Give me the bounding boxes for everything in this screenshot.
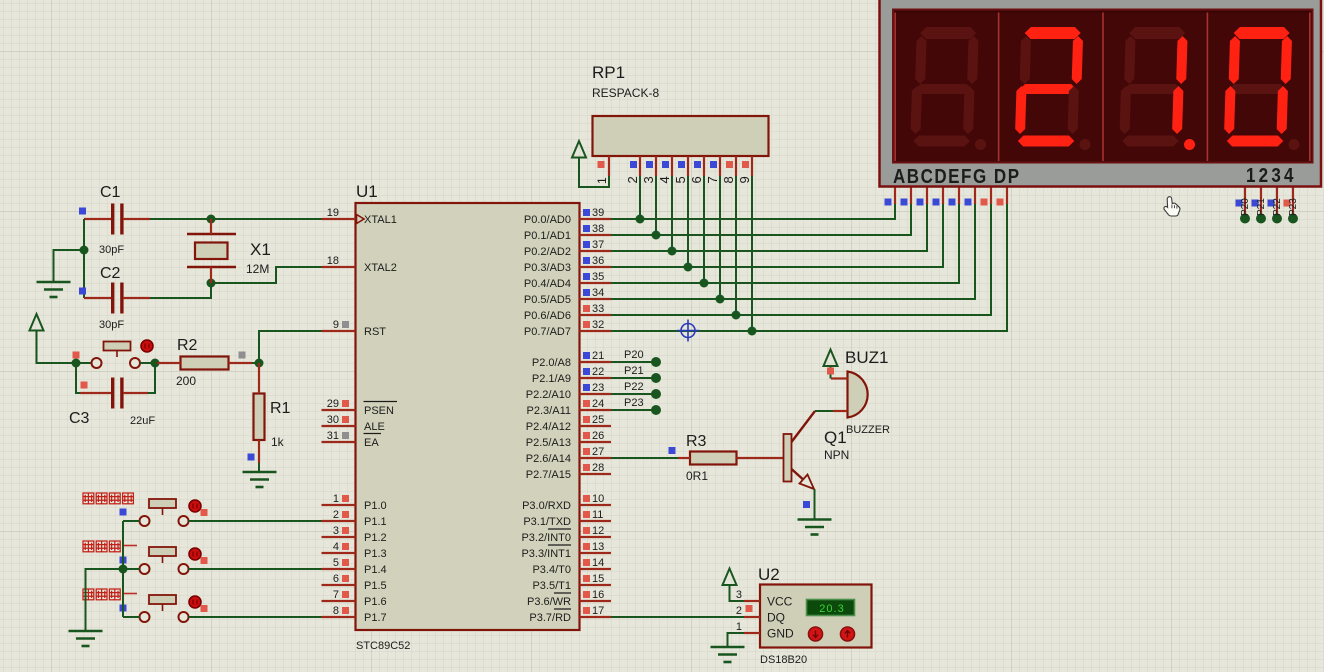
wire P0.0 net to display: [611, 203, 895, 219]
svg-text:18: 18: [327, 255, 339, 267]
wire C2 to crystal bottom: [150, 283, 211, 298]
push switch 3 click button: [189, 596, 201, 608]
svg-text:15: 15: [592, 573, 604, 585]
pin 38 P0.1/AD1 (U1 right): [580, 234, 612, 236]
state square R1 bottom: [248, 454, 255, 461]
pin 4 RP1: [671, 156, 673, 176]
svg-text:P2.2/A10: P2.2/A10: [526, 389, 571, 401]
svg-text:RESPACK-8: RESPACK-8: [592, 86, 659, 100]
svg-text:P1.6: P1.6: [364, 596, 387, 608]
wire P0.7 net to display: [611, 203, 1007, 331]
wire R2 to RST node: [252, 362, 259, 364]
overline WR: [554, 592, 571, 594]
svg-text:R3: R3: [686, 433, 707, 450]
svg-text:DS18B20: DS18B20: [760, 654, 807, 666]
display pin B: [910, 188, 912, 205]
svg-text:9: 9: [333, 319, 339, 331]
power arrow VCC (reset): [30, 314, 44, 331]
svg-text:6: 6: [689, 176, 704, 183]
wire BUZ1 top to VCC: [830, 366, 832, 379]
svg-text:X1: X1: [250, 240, 271, 259]
push switch 3 right contact: [179, 612, 189, 622]
node P0.0/RP1 junction: [636, 215, 645, 224]
svg-text:38: 38: [592, 223, 604, 235]
wire P0.3 net to display: [611, 203, 943, 267]
svg-text:P2.1/A9: P2.1/A9: [532, 373, 571, 385]
resistor R1 leads: [258, 363, 260, 394]
capacitor C3 plates: [111, 378, 114, 409]
svg-text:24: 24: [592, 398, 604, 410]
overline PSEN: [364, 401, 398, 403]
svg-text:31: 31: [327, 430, 339, 442]
node P22 terminal: [651, 389, 661, 399]
pin 23 P2.2/A10 (U1 right): [580, 393, 612, 395]
overline EA: [364, 433, 382, 435]
svg-text:25: 25: [592, 414, 604, 426]
pin 39 P0.0/AD0 (U1 right): [580, 218, 612, 220]
svg-text:P3.0/RXD: P3.0/RXD: [522, 500, 571, 512]
pin 31 EA (U1 left): [322, 441, 356, 443]
svg-text:32: 32: [592, 319, 604, 331]
state square button3 right: [201, 605, 208, 612]
svg-text:5: 5: [333, 557, 339, 569]
pin 22 P2.1/A9 (U1 right): [580, 377, 612, 379]
pin 4 P1.3 (U1 left): [322, 552, 356, 554]
wire C1-left down to ground branch: [83, 219, 85, 250]
svg-text:BUZ1: BUZ1: [845, 348, 888, 367]
digit 3 decimal point: [1184, 139, 1195, 150]
svg-text:P3.4/T0: P3.4/T0: [532, 564, 571, 576]
svg-text:R1: R1: [270, 400, 291, 417]
wire P0.6 net to display: [611, 203, 991, 315]
pin 10 P3.0/RXD (U1 right): [580, 504, 612, 506]
node C3-right junction: [151, 359, 160, 368]
svg-text:8: 8: [721, 176, 736, 183]
svg-text:30: 30: [327, 414, 339, 426]
svg-text:2: 2: [333, 509, 339, 521]
capacitor C1 leads: [84, 218, 111, 220]
svg-text:P2.5/A13: P2.5/A13: [526, 437, 571, 449]
wire C3 branch down-left: [76, 363, 80, 393]
label 阈值加 (red): [83, 541, 94, 552]
svg-text:11: 11: [592, 509, 603, 521]
wire collector to buzzer: [815, 410, 833, 412]
pin 37 P0.2/AD2 (U1 right): [580, 250, 612, 252]
svg-text:RST: RST: [364, 326, 386, 338]
svg-text:Q1: Q1: [824, 428, 847, 447]
svg-text:20.3: 20.3: [819, 603, 844, 615]
svg-text:P2.7/A15: P2.7/A15: [526, 469, 571, 481]
svg-text:PSEN: PSEN: [364, 405, 394, 417]
node P0.6/RP1 junction: [732, 311, 741, 320]
wire P3.7 to DQ: [611, 616, 744, 618]
pin 33 P0.6/AD6 (U1 right): [580, 314, 612, 316]
node P0.1/RP1 junction: [652, 231, 661, 240]
svg-text:37: 37: [592, 239, 604, 251]
wire P0.1 net to display: [611, 203, 911, 235]
wire RP1 pin5 down to P0.3: [687, 176, 689, 267]
display digit pin 1 / net P20: [1244, 188, 1246, 217]
svg-text:EA: EA: [364, 437, 379, 449]
node P23 terminal: [651, 405, 661, 415]
digit cell 1 background: [895, 13, 998, 161]
ground (U2): [711, 646, 745, 649]
wire RP1 pin7 down to P0.5: [719, 176, 721, 299]
svg-text:P2.0/A8: P2.0/A8: [532, 357, 571, 369]
svg-text:1: 1: [595, 177, 609, 184]
ground (buttons): [69, 630, 103, 633]
power arrow VCC (U2): [723, 569, 737, 586]
svg-text:33: 33: [592, 303, 604, 315]
wire branch down to C2: [83, 250, 85, 298]
label dash: [124, 593, 137, 595]
svg-text:P0.2/AD2: P0.2/AD2: [524, 246, 571, 258]
pin 25 P2.4/A12 (U1 right): [580, 425, 612, 427]
pin 36 P0.3/AD3 (U1 right): [580, 266, 612, 268]
ground (oscillator): [37, 281, 71, 284]
svg-text:1k: 1k: [271, 435, 285, 449]
crystal X1 top plate: [187, 233, 236, 236]
pin 1 P1.0 (U1 left): [322, 504, 356, 506]
wire button2 left to common: [123, 568, 140, 570]
svg-text:P3.6/WR: P3.6/WR: [527, 596, 571, 608]
overline INT0: [548, 528, 571, 530]
crystal X1 leads: [210, 219, 212, 234]
buzzer BUZ1 leads: [831, 377, 848, 379]
pin 14 P3.4/T0 (U1 right): [580, 568, 612, 570]
state square Q1 emitter: [803, 501, 810, 508]
push switch 1 click button: [189, 500, 201, 512]
pin 35 P0.4/AD4 (U1 right): [580, 282, 612, 284]
wire common to ground: [86, 569, 124, 631]
svg-text:7: 7: [333, 589, 339, 601]
crystal X1 body: [195, 243, 228, 260]
push switch 3 actuator: [149, 595, 176, 604]
push switch 1 actuator: [149, 499, 176, 508]
node RST/R1: [255, 359, 264, 368]
svg-text:U1: U1: [356, 182, 378, 201]
svg-text:3: 3: [736, 589, 742, 601]
push switch (reset) right contact: [130, 358, 140, 368]
resistor R3 body: [690, 452, 737, 465]
push switch 2 left contact: [140, 564, 150, 574]
wire P0.4 net to display: [611, 203, 959, 283]
label dash: [124, 545, 137, 547]
svg-text:GND: GND: [767, 627, 794, 641]
svg-text:NPN: NPN: [824, 448, 849, 462]
wire P0.2 net to display: [611, 203, 927, 251]
state square button1 right: [201, 509, 208, 516]
svg-text:P3.5/T1: P3.5/T1: [532, 580, 571, 592]
wire emitter to ground: [814, 489, 816, 520]
display digit pin 3 / net P22: [1276, 188, 1278, 217]
pin 2 P1.1 (U1 left): [322, 520, 356, 522]
wire VCC arrow to pin3: [730, 585, 745, 601]
wire RP1 pin4 down to P0.2: [671, 176, 673, 251]
push switch (reset) click button: [141, 340, 153, 352]
svg-text:22: 22: [592, 366, 604, 378]
svg-text:36: 36: [592, 255, 604, 267]
pin 3 RP1: [655, 156, 657, 176]
node P0.4/RP1 junction: [700, 279, 709, 288]
pin 7 RP1: [719, 156, 721, 176]
node crystal bottom: [207, 279, 216, 288]
svg-text:P0.5/AD5: P0.5/AD5: [524, 294, 571, 306]
digit 1 segments: [910, 27, 979, 147]
svg-text:BUZZER: BUZZER: [846, 424, 890, 436]
U2 plus button: [841, 627, 855, 641]
state square button2 left: [120, 557, 127, 564]
svg-text:0R1: 0R1: [686, 469, 708, 483]
pin 12 P3.2/INT0 (U1 right): [580, 536, 612, 538]
svg-text:39: 39: [592, 207, 604, 219]
svg-text:4: 4: [333, 541, 339, 553]
svg-text:P0.3/AD3: P0.3/AD3: [524, 262, 571, 274]
svg-text:P20: P20: [624, 349, 644, 361]
svg-text:P23: P23: [624, 397, 644, 409]
svg-text:P1.5: P1.5: [364, 580, 387, 592]
buzzer BUZ1 body: [848, 372, 868, 418]
svg-text:30pF: 30pF: [99, 319, 124, 331]
svg-text:C2: C2: [100, 265, 121, 282]
wire P0.5 net to display: [611, 203, 975, 299]
power arrow VCC (BUZ1): [824, 350, 838, 367]
svg-text:9: 9: [737, 176, 752, 183]
display pin G: [990, 188, 992, 205]
wire C1 to XTAL1 net: [150, 218, 322, 220]
svg-text:3: 3: [641, 176, 656, 183]
svg-text:29: 29: [327, 398, 339, 410]
svg-text:26: 26: [592, 430, 604, 442]
wire R1 to ground: [258, 463, 260, 472]
display digit pin 2 / net P21: [1260, 188, 1262, 217]
wire RP1 pin3 down to P0.1: [655, 176, 657, 235]
svg-text:P22: P22: [1272, 198, 1283, 216]
IC U1 STC89C52 body: [356, 203, 580, 630]
svg-text:P22: P22: [624, 381, 644, 393]
svg-text:XTAL2: XTAL2: [364, 262, 397, 274]
push switch 3 left contact: [140, 612, 150, 622]
svg-text:P1.2: P1.2: [364, 532, 387, 544]
svg-text:R2: R2: [177, 337, 198, 354]
digit 2 segments: [1015, 27, 1084, 147]
svg-text:19: 19: [327, 207, 339, 219]
svg-text:12M: 12M: [246, 262, 269, 276]
svg-text:P1.3: P1.3: [364, 548, 387, 560]
display pin C: [926, 188, 928, 205]
node P21 terminal: [651, 373, 661, 383]
svg-text:4: 4: [657, 176, 672, 183]
display pin DP: [1006, 188, 1008, 205]
display pin D: [942, 188, 944, 205]
node gnd branch: [80, 246, 89, 255]
resistor R2 body: [181, 357, 229, 370]
digit 1 decimal point: [975, 139, 986, 150]
capacitor C2 leads: [84, 297, 111, 299]
push switch 2 click button: [189, 548, 201, 560]
svg-text:17: 17: [592, 605, 604, 617]
state square C1 left: [79, 208, 86, 215]
digit 4 segments: [1224, 27, 1293, 147]
node P0.5/RP1 junction: [716, 295, 725, 304]
pin 30 ALE (U1 left): [322, 425, 356, 427]
node XTAL1/crystal-top junction: [207, 215, 216, 224]
svg-text:RP1: RP1: [592, 63, 625, 82]
state square switch left: [73, 352, 80, 359]
pin 18 XTAL2 (U1 left): [322, 266, 356, 268]
svg-text:P21: P21: [1256, 198, 1267, 216]
svg-text:16: 16: [592, 589, 604, 601]
ground (R1): [243, 471, 277, 474]
capacitor C3 leads: [80, 392, 111, 394]
svg-text:10: 10: [592, 493, 604, 505]
push switch 1 left contact: [140, 516, 150, 526]
transistor Q1 collector: [792, 411, 816, 442]
pin 15 P3.5/T1 (U1 right): [580, 584, 612, 586]
overline RD: [554, 608, 571, 610]
label 阈值减 (red): [83, 589, 94, 600]
svg-text:DQ: DQ: [767, 611, 785, 625]
pin 7 P1.6 (U1 left): [322, 600, 356, 602]
svg-text:P1.7: P1.7: [364, 612, 387, 624]
state square BUZ1: [827, 368, 834, 375]
wire button2 to P1 pin: [189, 568, 322, 570]
svg-text:VCC: VCC: [767, 595, 793, 609]
pin 19 XTAL1 (U1 left): [322, 218, 356, 220]
display pin F: [974, 188, 976, 205]
wire P2.0 stub: [611, 361, 656, 363]
svg-text:P3.3/INT1: P3.3/INT1: [521, 548, 571, 560]
svg-text:28: 28: [592, 462, 604, 474]
state square C2 left: [79, 288, 86, 295]
svg-text:8: 8: [333, 605, 339, 617]
svg-text:P2.6/A14: P2.6/A14: [526, 453, 571, 465]
push switch 1 right contact: [179, 516, 189, 526]
svg-text:P3.1/TXD: P3.1/TXD: [523, 516, 571, 528]
pin 32 P0.7/AD7 (U1 right): [580, 330, 612, 332]
U2 minus button: [809, 627, 823, 641]
pin 3 VCC U2: [744, 600, 760, 602]
pin 5 P1.4 (U1 left): [322, 568, 356, 570]
pin 16 P3.6/WR (U1 right): [580, 600, 612, 602]
svg-text:3: 3: [333, 525, 339, 537]
sensor U2 body: [760, 585, 872, 648]
wire button3 to P1 pin: [189, 616, 322, 618]
svg-text:P23: P23: [1288, 198, 1299, 216]
label 界面切换 (red): [83, 493, 94, 504]
resistor R1 body: [254, 394, 265, 441]
wire button1 to P1 pin: [189, 520, 322, 522]
svg-text:XTAL1: XTAL1: [364, 214, 397, 226]
display pin E: [958, 188, 960, 205]
pin 1 GND U2: [744, 632, 760, 634]
pin 2 DQ U2: [744, 616, 760, 618]
pin 34 P0.5/AD5 (U1 right): [580, 298, 612, 300]
svg-text:P3.7/RD: P3.7/RD: [529, 612, 571, 624]
push switch (reset) left contact: [92, 358, 102, 368]
svg-text:U2: U2: [758, 565, 780, 584]
svg-text:12: 12: [592, 525, 604, 537]
svg-text:1: 1: [736, 621, 742, 633]
svg-text:22uF: 22uF: [130, 415, 155, 427]
digit cell 3 background: [1104, 13, 1207, 161]
pin 5 RP1: [687, 156, 689, 176]
digit 4 decimal point: [1289, 139, 1300, 150]
ground (Q1): [798, 518, 832, 521]
push switch 2 right contact: [179, 564, 189, 574]
wire button3 left to common: [123, 616, 140, 618]
svg-text:P0.1/AD1: P0.1/AD1: [524, 230, 571, 242]
svg-text:5: 5: [673, 176, 688, 183]
wire button1 left to common: [123, 520, 140, 522]
svg-text:2: 2: [736, 605, 742, 617]
wire P2.1 stub: [611, 377, 656, 379]
pin 2 RP1: [639, 156, 641, 176]
wire RP1 pin8 down to P0.6: [735, 176, 737, 315]
capacitor C1 plates: [111, 204, 114, 235]
pin 3 P1.2 (U1 left): [322, 536, 356, 538]
wire C3 right up to node: [148, 363, 155, 393]
node P20 terminal: [651, 357, 661, 367]
pin 29 PSEN (U1 left): [322, 409, 356, 411]
wire VCC arrow to switch: [37, 331, 92, 364]
pin 13 P3.3/INT1 (U1 right): [580, 552, 612, 554]
resistor pack RP1 body: [593, 116, 769, 156]
pin 6 RP1: [703, 156, 705, 176]
svg-text:P0.0/AD0: P0.0/AD0: [524, 214, 571, 226]
svg-text:200: 200: [176, 374, 196, 388]
svg-text:34: 34: [592, 287, 604, 299]
wire pin1 to ground: [728, 633, 745, 647]
U2 LCD readout: [807, 600, 855, 616]
state square R3 left: [669, 447, 676, 454]
state square button3 left: [120, 605, 127, 612]
pin 27 P2.6/A14 (U1 right): [580, 457, 612, 459]
svg-text:27: 27: [592, 446, 604, 458]
wire RP1 pin6 down to P0.4: [703, 176, 705, 283]
svg-text:1234: 1234: [1246, 164, 1297, 187]
transistor Q1 emitter: [792, 469, 813, 488]
state square button2 right: [201, 557, 208, 564]
transistor Q1 base bar: [784, 434, 792, 482]
svg-text:ALE: ALE: [364, 421, 385, 433]
state square button1 left: [120, 509, 127, 516]
svg-text:23: 23: [592, 382, 604, 394]
pin 11 P3.1/TXD (U1 right): [580, 520, 612, 522]
wire P2.6 to R3: [611, 457, 678, 459]
overline INT1: [548, 544, 571, 546]
wire RP1 pin1 to VCC arrow: [579, 158, 609, 188]
svg-text:1: 1: [333, 493, 339, 505]
node P0.3/RP1 junction: [684, 263, 693, 272]
svg-text:ABCDEFG DP: ABCDEFG DP: [893, 165, 1021, 188]
pin 6 P1.5 (U1 left): [322, 584, 356, 586]
svg-text:P2.3/A11: P2.3/A11: [527, 405, 571, 417]
wire switch right to R2: [140, 362, 157, 364]
svg-text:35: 35: [592, 271, 604, 283]
display pin A: [894, 188, 896, 205]
svg-text:P0.4/AD4: P0.4/AD4: [524, 278, 571, 290]
pin 9 RST (U1 left): [322, 330, 356, 332]
resistor R3 leads: [678, 457, 690, 459]
wire node to RST pin: [259, 331, 322, 363]
svg-text:P3.2/INT0: P3.2/INT0: [521, 532, 571, 544]
svg-text:P21: P21: [624, 365, 644, 377]
digit cell 4 background: [1209, 13, 1312, 161]
wire RP1 pin2 down to P0.0: [639, 176, 641, 219]
digit cell separators: [894, 13, 896, 162]
node reset-left: [72, 359, 81, 368]
